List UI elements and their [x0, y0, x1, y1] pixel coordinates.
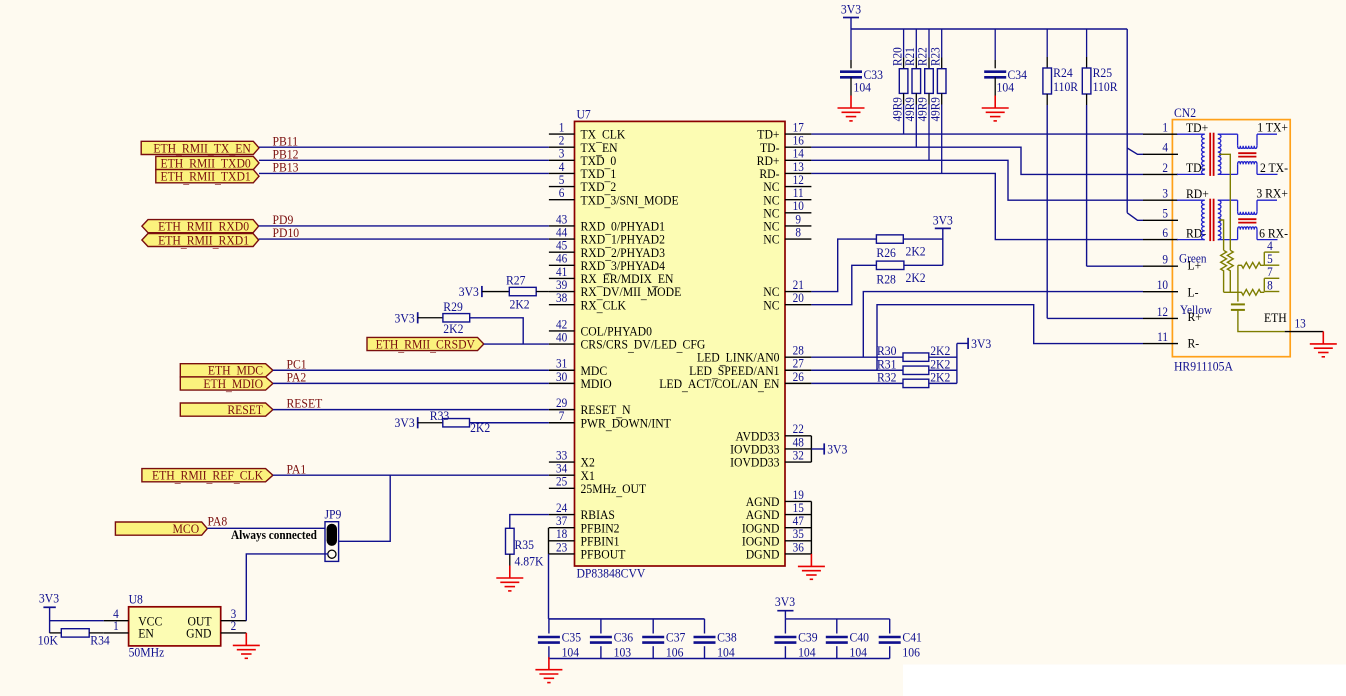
wire R34 right lead to U8 EN — [89, 632, 104, 634]
wire C33 lower lead — [850, 77, 852, 95]
resistor R25 — [1082, 68, 1091, 94]
svg-text:DP83848CVV: DP83848CVV — [577, 566, 646, 581]
wire LED_SPEED tap up to CN2 pin 11 — [877, 305, 1143, 371]
wire ETH_RMII_CRSDV to pin 40 — [484, 343, 549, 345]
wire node vertical (olive) — [1237, 265, 1239, 292]
svg-text:25: 25 — [556, 474, 567, 489]
wire AVDD/IOVDD tie (pins 22,48,32) — [810, 436, 812, 462]
wire R32 right lead — [929, 382, 957, 384]
U7 pin 18 PFBIN1 — [549, 527, 620, 549]
svg-text:2K2: 2K2 — [443, 322, 463, 337]
svg-text:7: 7 — [559, 409, 565, 424]
svg-text:ETH: ETH — [1264, 310, 1287, 325]
ground under C33 — [838, 96, 865, 121]
resistor R35 — [506, 528, 515, 554]
svg-text:R-: R- — [1187, 336, 1199, 351]
port flag ETH_RMII_TXD0 — [156, 156, 259, 173]
resistor R26 2K2 — [876, 235, 903, 243]
power 3V3 at R33 — [395, 416, 418, 431]
U7 pin 27 LED_SPEED/AN1 — [689, 356, 811, 380]
resistor R27 2K2 — [509, 287, 536, 295]
wire TD+ (pin 17) to CN2 pin 1 — [811, 133, 1143, 135]
transformer T1 (TX) core — [1210, 133, 1213, 176]
svg-text:11: 11 — [1157, 329, 1168, 344]
wire C33 upper lead — [850, 29, 852, 60]
svg-text:R26: R26 — [876, 245, 895, 260]
svg-text:NC: NC — [763, 298, 779, 313]
svg-text:10: 10 — [1157, 278, 1168, 293]
wire 3V3 to U8 VCC — [50, 620, 104, 622]
U7 pin 29 RESET_N — [549, 395, 631, 419]
U7 pin 21 NC — [763, 277, 811, 299]
U7 pin 44 RXD_1/PHYAD2 — [549, 225, 665, 249]
svg-text:104: 104 — [853, 80, 871, 95]
svg-text:13: 13 — [1294, 316, 1305, 331]
wire ETH_MDC / PC1 to pin 31 — [273, 369, 549, 371]
port flag ETH_MDC — [180, 363, 273, 380]
resistor R29 2K2 — [443, 314, 470, 322]
wire cap top rail left group — [549, 618, 705, 620]
wire pin to R31 — [811, 369, 903, 371]
svg-text:23: 23 — [556, 540, 567, 555]
capacitor C35 — [538, 637, 560, 643]
wire ETH_RMII_TX_EN / PB11 to pin 2 — [259, 146, 549, 148]
svg-text:3V3: 3V3 — [395, 416, 415, 431]
ground at cap rail — [535, 657, 562, 682]
U7 pin 20 NC — [763, 290, 811, 312]
wire C35 lower lead — [548, 646, 550, 658]
svg-text:PA8: PA8 — [208, 514, 228, 529]
wire PFB rail down to cap rail — [548, 554, 550, 619]
svg-text:ETH_RMII_CRSDV: ETH_RMII_CRSDV — [376, 337, 475, 354]
svg-text:EN: EN — [138, 626, 154, 641]
wire common node (olive) — [1224, 291, 1238, 293]
svg-text:TXD_3/SNI_MODE: TXD_3/SNI_MODE — [581, 193, 679, 210]
transformer T1 (TX) secondary winding — [1218, 134, 1238, 174]
wire pin 20 to R28 — [811, 265, 876, 304]
svg-text:C40: C40 — [850, 630, 869, 645]
power 3V3 at AVDD33 — [824, 442, 847, 457]
svg-text:R28: R28 — [876, 272, 895, 287]
svg-text:2K2: 2K2 — [509, 297, 529, 312]
svg-text:C39: C39 — [798, 630, 817, 645]
wire TX center tap (olive) — [1219, 154, 1230, 250]
svg-text:103: 103 — [614, 645, 632, 660]
svg-text:26: 26 — [793, 369, 804, 384]
U7 pin 28 LED_LINK/AN0 — [697, 343, 811, 367]
U7 pin 11 NC — [763, 186, 811, 208]
U7 pin 12 NC — [763, 172, 811, 194]
svg-text:CRS/CRS_DV/LED_CFG: CRS/CRS_DV/LED_CFG — [581, 337, 706, 354]
U7 pin 8 NC — [763, 225, 811, 247]
resistor R34 10K — [61, 629, 89, 637]
wire R28 right lead — [904, 264, 943, 266]
svg-text:R32: R32 — [877, 370, 896, 385]
CN2 pin 11 — [1143, 329, 1178, 344]
wire R24 lower dropper to CN2 pin12 — [1046, 94, 1048, 105]
resistor R32 2K2 — [903, 379, 929, 387]
wire R21 lower lead — [915, 93, 917, 104]
resistor R23 — [937, 69, 946, 94]
wire 3V3 stem to bus — [850, 18, 852, 30]
wire C40 upper lead — [836, 619, 838, 634]
svg-text:3: 3 — [1162, 186, 1168, 201]
CN2 pin 13 — [1285, 316, 1324, 332]
wire R30 right lead — [929, 356, 957, 358]
svg-text:3V3: 3V3 — [841, 2, 861, 17]
wire PA1 branch down to JP9 pin 2 — [339, 475, 391, 541]
wire RBIAS pin 24 to R35 — [510, 515, 549, 529]
power 3V3 at U8 — [39, 591, 59, 608]
svg-text:104: 104 — [798, 645, 816, 660]
U7 pin 17 TD+ — [757, 120, 811, 142]
svg-text:3V3: 3V3 — [933, 213, 953, 228]
svg-text:9: 9 — [1162, 252, 1168, 267]
CN2 pin 6 — [1143, 225, 1206, 240]
svg-text:2: 2 — [1162, 160, 1168, 175]
svg-text:6 RX-: 6 RX- — [1259, 226, 1288, 241]
svg-text:ETH_RMII_TXD1: ETH_RMII_TXD1 — [160, 169, 250, 186]
wire ETH_RMII_RXD1 / PD10 to pin 44 — [259, 238, 549, 240]
wire R23 upper lead — [941, 29, 943, 58]
capacitor C39 — [774, 637, 796, 643]
CN2 pin 2 — [1143, 160, 1205, 175]
port flag ETH_RMII_REF_CLK — [142, 468, 273, 485]
svg-text:R+: R+ — [1187, 310, 1201, 325]
wire C38 upper lead — [704, 619, 706, 634]
wire RD- (pin 13) to CN2 pin 6 — [811, 173, 1143, 239]
wire C34 lower lead — [994, 77, 996, 95]
U7 pin 16 TD- — [760, 133, 811, 155]
wire ETH_MDIO / PA2 to pin 30 — [273, 382, 549, 384]
port flag ETH_RMII_RXD1 — [142, 233, 259, 250]
wire R27 left lead — [482, 291, 509, 293]
svg-text:110R: 110R — [1053, 79, 1079, 94]
svg-text:GND: GND — [186, 626, 211, 641]
svg-text:2 TX-: 2 TX- — [1260, 160, 1288, 175]
svg-text:PA2: PA2 — [286, 370, 306, 385]
U7 pin 45 RXD_2/PHYAD3 — [549, 238, 665, 262]
U7 pin 22 AVDD33 — [736, 422, 812, 444]
transformer T1 (TX) primary winding — [1177, 134, 1205, 174]
wire R20 upper lead — [903, 29, 905, 58]
wire RX center tap (olive) — [1219, 220, 1224, 250]
wire RESET to pin 29 — [273, 409, 549, 411]
svg-text:50MHz: 50MHz — [129, 645, 165, 660]
svg-text:U7: U7 — [577, 107, 591, 122]
capacitor C37 — [642, 637, 664, 643]
svg-text:1 TX+: 1 TX+ — [1257, 120, 1288, 135]
svg-text:TD-: TD- — [1186, 160, 1205, 175]
svg-text:8: 8 — [1267, 278, 1273, 293]
wire ETH_RMII_REF_CLK / PA1 to pin 34 — [273, 474, 549, 476]
wire R33 right lead to pin 7 — [470, 422, 549, 424]
CN2 pin 8 stub (inner) — [1264, 278, 1279, 293]
svg-text:3V3: 3V3 — [459, 284, 479, 299]
U7 pin 7 PWR_DOWN/INT — [549, 409, 671, 433]
svg-text:110R: 110R — [1093, 79, 1119, 94]
power 3V3 at R26/R28 — [933, 213, 953, 228]
wire RD+ (pin 14) to CN2 pin 3 — [811, 160, 1143, 200]
svg-text:3V3: 3V3 — [39, 591, 59, 606]
port flag ETH_RMII_TX_EN — [141, 141, 259, 158]
svg-text:36: 36 — [793, 540, 804, 555]
resistor R31 2K2 — [903, 366, 929, 374]
wire cap top rail left group — [549, 618, 705, 620]
svg-text:106: 106 — [902, 645, 920, 660]
svg-text:PA1: PA1 — [286, 462, 306, 477]
svg-text:32: 32 — [793, 448, 804, 463]
resistor R22 — [925, 69, 934, 94]
white margin area bottom-right — [903, 665, 1346, 696]
U7 pin 10 NC — [763, 199, 811, 221]
U7 pin 42 COL/PHYAD0 — [549, 317, 652, 339]
svg-text:R24: R24 — [1053, 65, 1072, 80]
svg-text:R23: R23 — [928, 47, 943, 66]
U7 pin 43 RXD_0/PHYAD1 — [549, 212, 665, 236]
svg-text:U8: U8 — [129, 592, 143, 607]
wire R34 left lead — [50, 632, 62, 634]
port flag RESET — [180, 402, 273, 417]
wire ETH_RMII_TXD0 / PB12 to pin 3 — [259, 159, 549, 161]
wire cap top rail right group — [785, 618, 889, 620]
capacitor C34 — [984, 72, 1006, 78]
svg-text:L+: L+ — [1187, 258, 1201, 273]
transformer T2 (RX) secondary winding — [1218, 200, 1238, 239]
ground under C34 — [982, 96, 1009, 121]
wire top 3V3 horizontal rail — [851, 28, 1127, 30]
CN2 pin 12 — [1143, 304, 1178, 319]
svg-text:ETH_RMII_RXD1: ETH_RMII_RXD1 — [158, 233, 249, 250]
U7 pin 23 PFBOUT — [549, 540, 626, 562]
U7 pin 1 TX_CLK — [549, 120, 626, 144]
CN2 pin 5 stub (inner) — [1264, 252, 1279, 267]
ground under AGND pins — [798, 554, 825, 579]
svg-text:3V3: 3V3 — [827, 442, 847, 457]
wire R22 upper lead — [928, 29, 930, 58]
port flag ETH_MDIO — [180, 376, 273, 393]
wire C41 lower lead — [889, 646, 891, 658]
U7 pin 36 DGND — [746, 540, 812, 562]
wire R27 right lead to pin 39 — [536, 291, 549, 293]
CN2 pin 9 — [1143, 252, 1178, 267]
wire C36 lower lead — [600, 646, 602, 658]
wire node to capacitor (olive) — [1237, 292, 1239, 301]
wire pin 21 to R26 — [811, 239, 876, 291]
wire C37 upper lead — [652, 619, 654, 634]
U7 pin 39 RX_DV/MII_MODE — [549, 277, 681, 301]
svg-text:25MHz_OUT: 25MHz_OUT — [581, 481, 647, 498]
svg-text:HR911105A: HR911105A — [1174, 359, 1233, 374]
svg-text:NC: NC — [763, 232, 779, 247]
svg-text:40: 40 — [556, 330, 567, 345]
svg-text:30: 30 — [556, 369, 567, 384]
wire MCO to JP9 pin 1 — [207, 527, 325, 529]
wire C36 upper lead — [600, 619, 602, 634]
resistor (olive, TX tap) — [1227, 250, 1233, 292]
wire C38 lower lead — [704, 646, 706, 658]
svg-text:PB13: PB13 — [273, 160, 299, 175]
wire R26 right lead — [903, 238, 943, 240]
U7 pin 15 AGND — [746, 500, 812, 522]
transformer T1 (TX) choke core — [1238, 153, 1256, 156]
U7 pin 4 TXD_1 — [549, 159, 616, 183]
svg-text:5: 5 — [1162, 206, 1168, 221]
wire R25 lower dropper to CN2 pin9 — [1086, 94, 1088, 105]
wire R29 right lead and jog down to CRSDV wire — [470, 318, 524, 344]
CN2 pin 3 — [1143, 186, 1209, 201]
U7 pin 24 RBIAS — [549, 500, 615, 522]
resistor R24 — [1043, 68, 1052, 94]
wire C35 upper lead — [548, 619, 550, 634]
U7 pin 30 MDIO — [549, 369, 612, 391]
svg-text:12: 12 — [1157, 304, 1168, 319]
wire diagonal to CN2 pin 5 — [1127, 213, 1143, 221]
wire capacitor to pin 13 (olive) — [1238, 310, 1285, 332]
svg-text:MDIO: MDIO — [581, 376, 612, 391]
wire R23 lower lead — [941, 93, 943, 104]
power 3V3 at R29 — [395, 311, 418, 326]
wire pin to R30 — [811, 356, 903, 358]
svg-text:RESET: RESET — [286, 396, 322, 411]
svg-text:6: 6 — [559, 186, 565, 201]
wire 3V3 stem to right cap rail — [784, 611, 786, 619]
resistor R21 — [912, 69, 921, 94]
svg-text:LED_ACT/COL/AN_EN: LED_ACT/COL/AN_EN — [659, 376, 779, 393]
U7 pin 9 NC — [763, 212, 811, 234]
svg-text:20: 20 — [793, 290, 804, 305]
wire center-tap vertical (3V3 rail to CN2 pins 4,5) — [1126, 29, 1128, 213]
capacitor C33 — [840, 72, 862, 78]
port flag ETH_RMII_TXD1 — [156, 169, 259, 186]
svg-text:104: 104 — [850, 645, 868, 660]
U7 pin 33 X2 — [549, 448, 595, 470]
U7 pin 31 MDC — [549, 356, 607, 378]
svg-text:R35: R35 — [515, 537, 534, 552]
svg-text:2K2: 2K2 — [905, 271, 925, 286]
svg-text:104: 104 — [717, 645, 735, 660]
svg-text:2K2: 2K2 — [905, 244, 925, 259]
resistor R20 — [899, 69, 908, 94]
svg-text:PWR_DOWN/INT: PWR_DOWN/INT — [581, 416, 672, 433]
CN2 pin 1 — [1143, 120, 1208, 135]
svg-text:RD-: RD- — [1186, 226, 1206, 241]
svg-text:R29: R29 — [443, 300, 462, 315]
wire PFBIN tie vertical (pins 37,18,23) — [548, 528, 550, 554]
wire 3V3 stem at R26/R28 — [942, 228, 944, 265]
wire R33 left lead — [418, 422, 443, 424]
capacitor C41 — [879, 637, 901, 643]
svg-text:3V3: 3V3 — [971, 336, 991, 351]
svg-text:49R9: 49R9 — [928, 97, 943, 121]
wire AGND tie (pins 19,15,47,35,36) — [810, 501, 812, 553]
U7 pin 25 25MHz_OUT — [549, 474, 647, 498]
transformer T2 (RX) choke core — [1238, 219, 1256, 222]
wire R31 right lead — [929, 369, 957, 371]
U7 pin 37 PFBIN2 — [549, 514, 620, 536]
svg-text:8: 8 — [795, 225, 801, 240]
svg-text:3 RX+: 3 RX+ — [1256, 186, 1288, 201]
U7 pin 35 IOGND — [742, 527, 812, 549]
svg-text:R34: R34 — [90, 633, 109, 648]
wire R29 left lead — [418, 317, 443, 319]
wire C40 lower lead — [836, 646, 838, 658]
transformer T2 (RX) primary winding — [1177, 200, 1205, 239]
svg-text:L-: L- — [1187, 285, 1198, 300]
wire diagonal to CN2 pin 4 — [1127, 148, 1143, 154]
IC U8 50MHz oscillator body — [129, 607, 221, 646]
svg-text:RX_CLK: RX_CLK — [581, 298, 627, 315]
U7 pin 47 IOGND — [742, 514, 812, 536]
CN2 pin 7 stub (inner) — [1264, 265, 1279, 280]
wire tie to 3V3 bar — [811, 448, 824, 450]
svg-text:RD+: RD+ — [1186, 186, 1209, 201]
CN2 pin 4 stub (inner) — [1264, 238, 1279, 253]
wire R22 lower lead — [928, 93, 930, 104]
ground at CN2 pin 13 — [1310, 331, 1337, 356]
svg-text:6: 6 — [1162, 225, 1168, 240]
IC U7 DP83848CVV body — [575, 121, 786, 566]
port flag ETH_RMII_RXD0 — [142, 219, 259, 236]
CN2 pin 5 — [1143, 206, 1178, 221]
resistor R30 2K2 — [903, 353, 929, 361]
wire R25 upper lead — [1086, 29, 1088, 57]
capacitor C40 — [826, 637, 848, 643]
wire pin to R32 — [811, 382, 903, 384]
svg-text:TD+: TD+ — [1186, 120, 1208, 135]
wire ETH_RMII_RXD0 / PD9 to pin 43 — [259, 225, 549, 227]
power 3V3 at LED resistors — [968, 336, 991, 351]
svg-text:10K: 10K — [38, 633, 58, 648]
U7 pin 3 TXD_0 — [549, 146, 616, 170]
U8 pin 4 VCC — [104, 606, 163, 628]
svg-text:2: 2 — [231, 619, 237, 634]
power flag 3V3 (top rail) — [841, 2, 861, 18]
svg-text:R25: R25 — [1093, 65, 1112, 80]
svg-text:1: 1 — [1162, 120, 1168, 135]
wire R35 lower lead — [509, 554, 511, 565]
U7 pin 40 CRS/CRS_DV/LED_CFG — [549, 330, 705, 354]
svg-text:R33: R33 — [430, 409, 449, 424]
wire TD- (pin 16) to CN2 pin 2 — [811, 147, 1143, 174]
wire C41 upper lead — [889, 619, 891, 634]
wire R30/R31/R32 3V3 rail — [956, 343, 958, 383]
svg-text:JP9: JP9 — [325, 507, 342, 522]
svg-text:38: 38 — [556, 290, 567, 305]
resistor (olive) to pins 4,5 — [1238, 262, 1264, 268]
svg-text:3V3: 3V3 — [775, 594, 795, 609]
U7 pin 26 LED_ACT/COL/AN_EN — [659, 369, 811, 393]
svg-text:4.87K: 4.87K — [515, 554, 544, 569]
wire ETH_RMII_TXD1 / PB13 to pin 4 — [259, 172, 549, 174]
transformer T2 (RX) common-mode choke — [1238, 200, 1278, 239]
svg-text:106: 106 — [666, 645, 684, 660]
svg-text:RESET: RESET — [227, 402, 263, 417]
wire U8 OUT up to JP9 pin 3 — [246, 554, 328, 621]
wire C34 upper lead — [994, 29, 996, 60]
svg-text:ETH_MDIO: ETH_MDIO — [203, 376, 263, 393]
U7 pin 32 IOVDD33 — [730, 448, 811, 470]
svg-text:ETH_RMII_REF_CLK: ETH_RMII_REF_CLK — [152, 468, 263, 485]
svg-text:DGND: DGND — [746, 547, 780, 562]
wire R20 lower lead — [903, 93, 905, 104]
port flag ETH_RMII_CRSDV — [367, 337, 484, 354]
svg-text:C41: C41 — [902, 630, 921, 645]
U7 pin 13 RD- — [759, 159, 811, 181]
ground under R35 — [496, 566, 523, 591]
capacitor C38 — [694, 637, 716, 643]
U7 pin 46 RXD_3/PHYAD4 — [549, 251, 665, 275]
